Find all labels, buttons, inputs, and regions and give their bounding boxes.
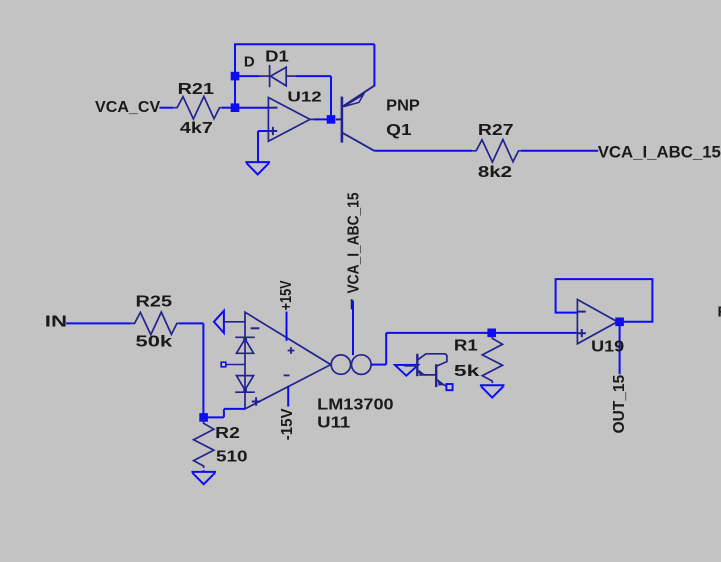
- svg-text:PNP: PNP: [386, 97, 420, 114]
- svg-text:VCA_I_ABC_15: VCA_I_ABC_15: [346, 192, 363, 293]
- svg-text:R2: R2: [215, 425, 240, 442]
- svg-text:Q1: Q1: [386, 122, 412, 139]
- svg-text:8k2: 8k2: [478, 164, 512, 181]
- svg-text:U19: U19: [591, 339, 624, 356]
- svg-text:VCA_I_ABC_15: VCA_I_ABC_15: [598, 143, 721, 162]
- svg-text:+15V: +15V: [278, 280, 295, 311]
- svg-text:LM13700: LM13700: [317, 396, 393, 413]
- svg-text:U12: U12: [287, 88, 321, 105]
- svg-text:D1: D1: [265, 49, 289, 66]
- svg-text:R1: R1: [454, 338, 478, 355]
- svg-text:IN: IN: [45, 314, 67, 331]
- svg-text:R27: R27: [478, 122, 514, 139]
- svg-text:5k: 5k: [454, 363, 480, 380]
- svg-text:U11: U11: [317, 415, 351, 432]
- svg-text:R25: R25: [136, 293, 173, 310]
- svg-text:VCA_CV: VCA_CV: [95, 99, 161, 116]
- svg-text:510: 510: [216, 449, 248, 466]
- svg-text:R: R: [718, 304, 721, 321]
- svg-text:R21: R21: [178, 81, 215, 98]
- svg-text:D: D: [244, 54, 255, 71]
- svg-text:OUT_15: OUT_15: [611, 374, 628, 433]
- svg-text:-15V: -15V: [279, 408, 296, 440]
- svg-text:50k: 50k: [136, 334, 173, 351]
- svg-text:4k7: 4k7: [180, 120, 213, 137]
